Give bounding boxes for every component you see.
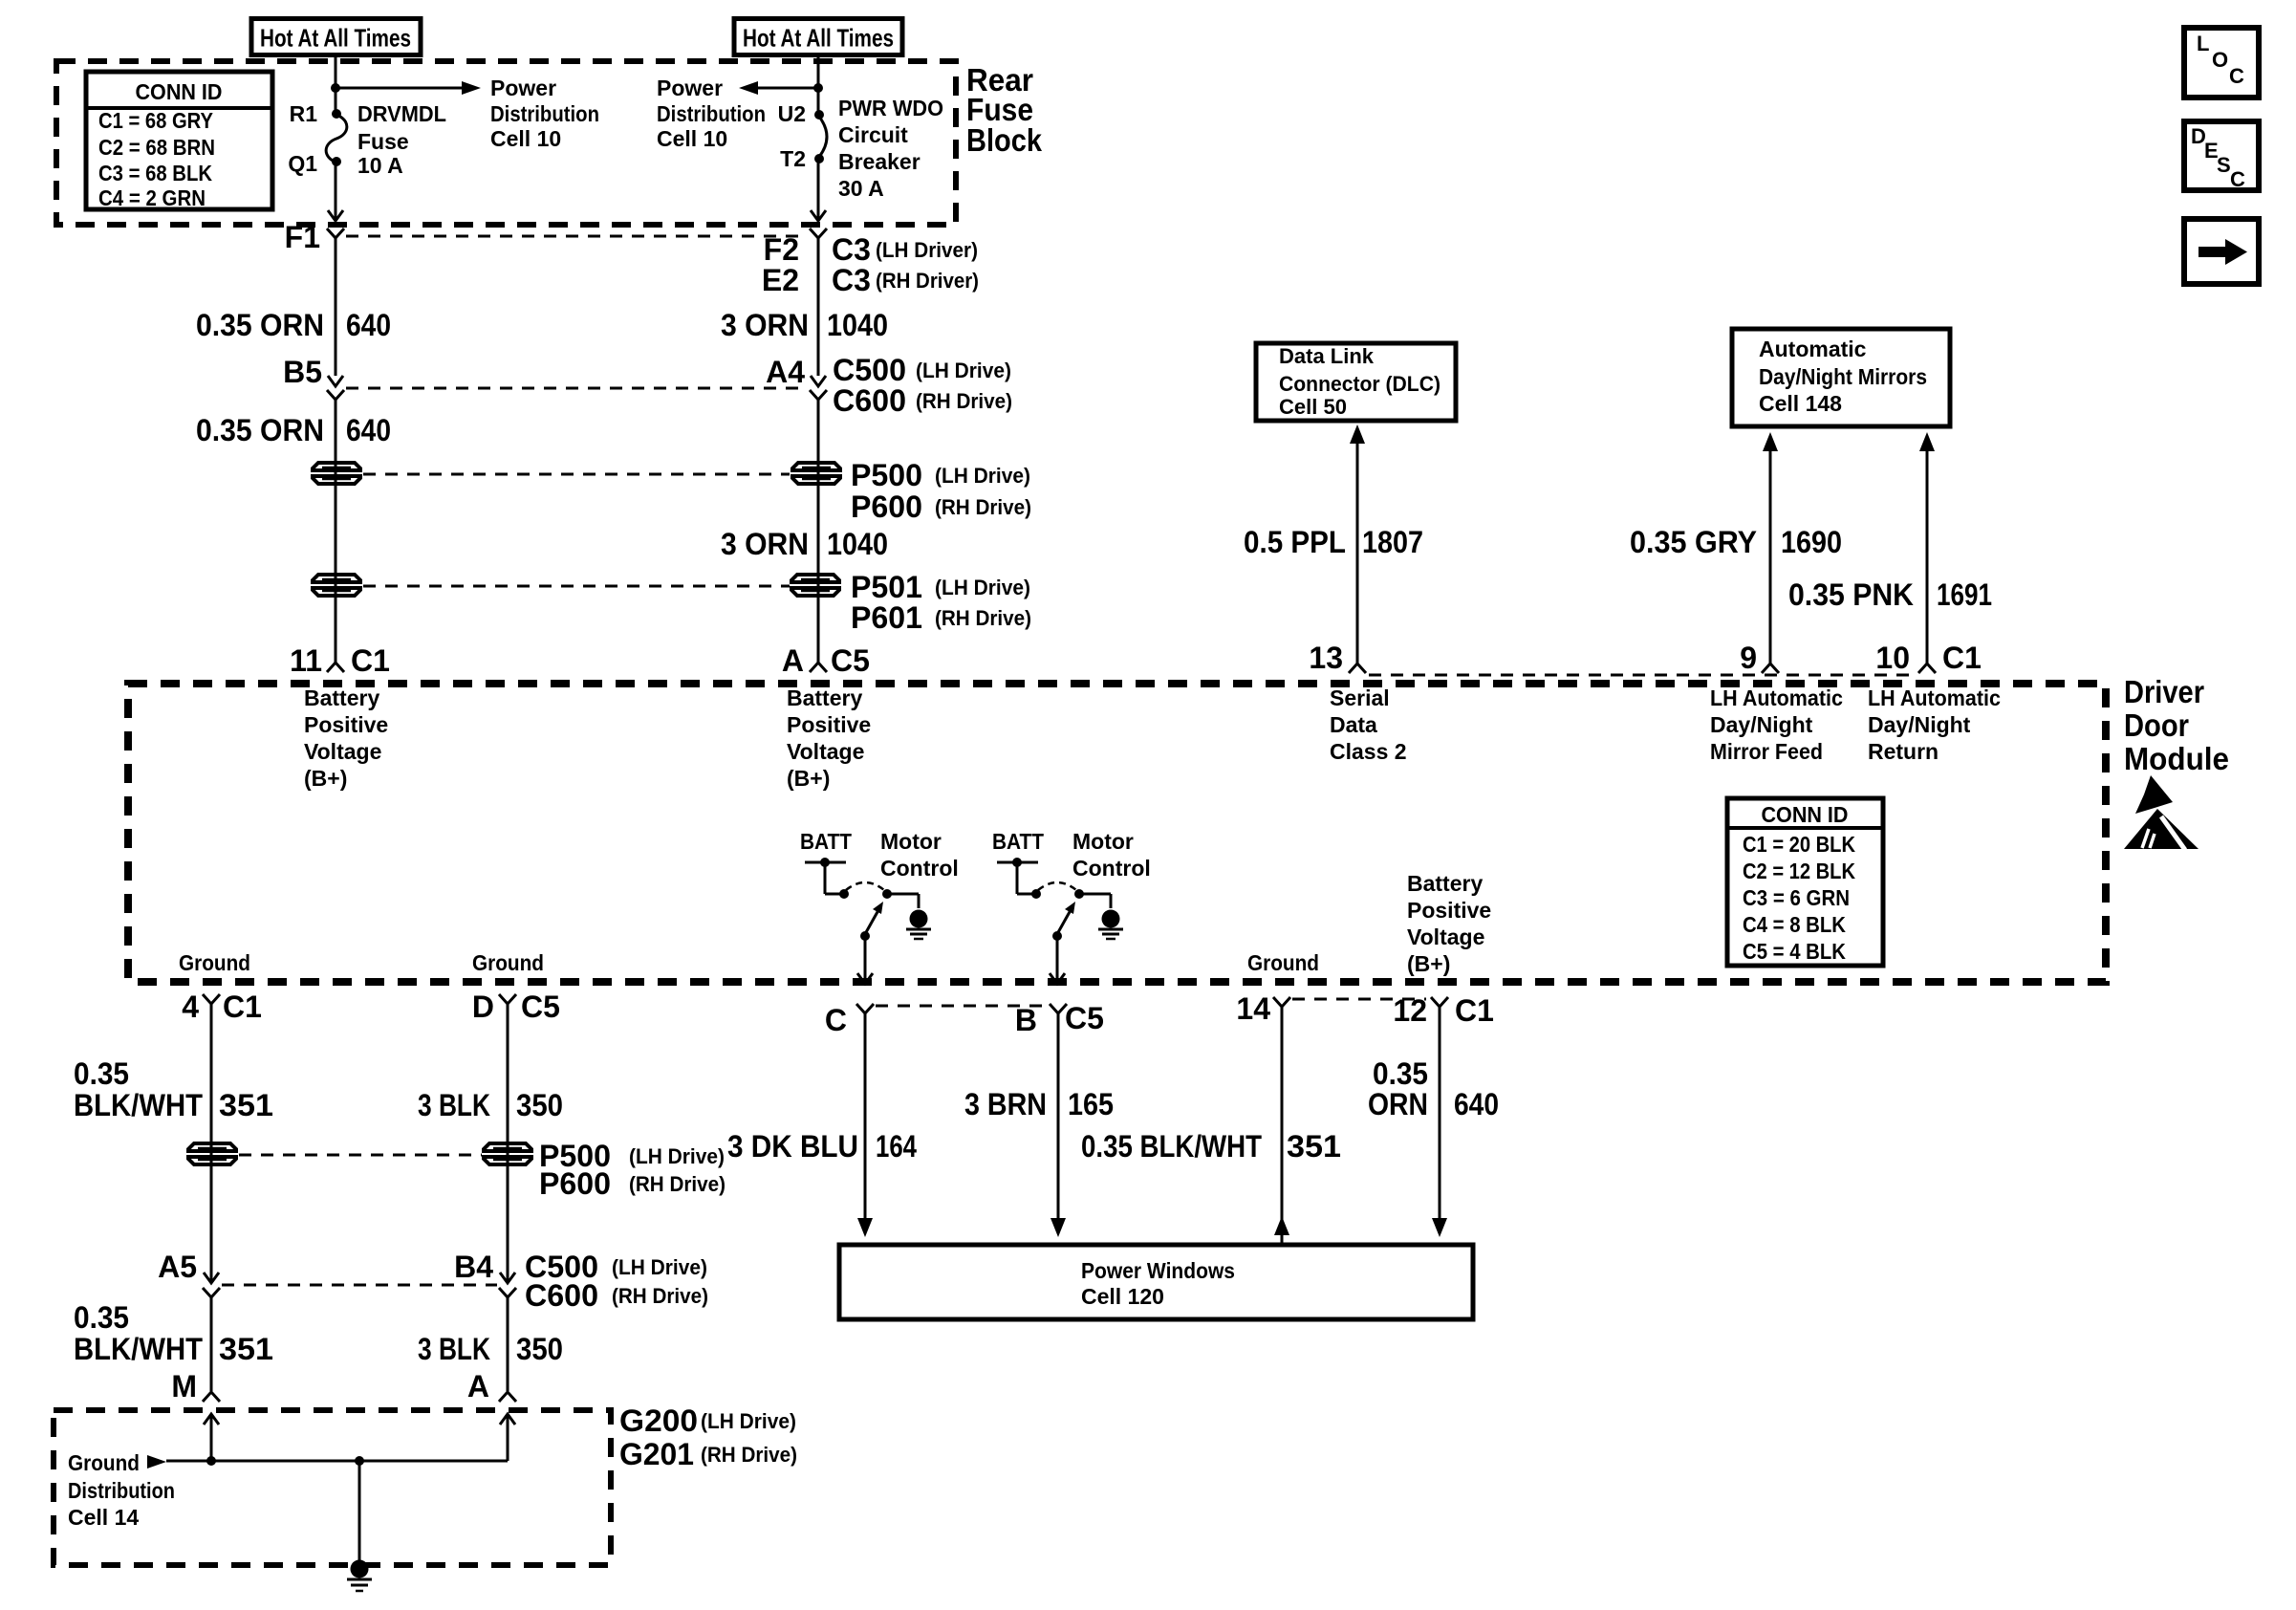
svg-text:BLK/WHT: BLK/WHT [74, 1332, 203, 1366]
in-line connector P500/P600 bottom dashed link [239, 1154, 482, 1157]
wire switch S1 to module pin [857, 936, 873, 984]
pin exit below C500 (left wire) [327, 390, 344, 400]
switch S1 BATT terminal [805, 858, 849, 899]
wire battery feed into fuse DRVMDL [335, 57, 337, 114]
svg-text:(LH Driver): (LH Driver) [876, 238, 978, 262]
svg-text:O: O [2212, 48, 2228, 72]
wire label 0.35 ORN 640 (upper left) [196, 308, 391, 342]
svg-text:C3: C3 [832, 263, 871, 297]
wire label 0.35 BLK/WHT 351 (upper) [74, 1056, 273, 1122]
svg-text:BLK/WHT: BLK/WHT [74, 1088, 203, 1122]
wire label 3 ORN 1040 (upper right) [721, 308, 888, 342]
svg-text:Distribution: Distribution [657, 101, 766, 126]
box Automatic Day/Night Mirrors Cell 148 [1732, 329, 1950, 426]
svg-text:Day/Night Mirrors: Day/Night Mirrors [1759, 364, 1927, 389]
svg-text:Day/Night: Day/Night [1868, 712, 1971, 737]
wire label 0.5 PPL 1807 [1244, 525, 1423, 559]
pin D C5 [472, 990, 560, 1024]
driver door module boundary (dashed) [128, 684, 2106, 982]
label Serial Data Class 2 (pin 13) [1330, 685, 1407, 764]
wire breaker output to F2 [811, 159, 826, 221]
svg-text:C2 = 68 BRN: C2 = 68 BRN [98, 135, 215, 160]
pin A into ground distribution [467, 1369, 516, 1403]
pin 13 [1309, 641, 1366, 675]
wire label 0.35 GRY 1690 [1630, 525, 1842, 559]
wire label 0.35 ORN 640 (left, second) [196, 413, 391, 447]
pin 4 C1 [182, 990, 262, 1024]
label box Hot At All Times (left) [251, 19, 421, 55]
svg-text:0.35: 0.35 [74, 1056, 129, 1091]
svg-text:F1: F1 [285, 220, 320, 254]
svg-text:BATT: BATT [992, 829, 1044, 854]
connector line C500/C600 bottom (dashed) [222, 1284, 497, 1287]
connector line C1 top (dashed) [1369, 674, 1916, 677]
svg-text:DRVMDL: DRVMDL [357, 101, 446, 126]
label LH Automatic Day/Night Return (pin 10) [1868, 685, 2001, 764]
pin 14 [1236, 991, 1290, 1026]
svg-text:(LH Drive): (LH Drive) [935, 576, 1030, 599]
svg-text:PWR WDO: PWR WDO [838, 96, 943, 120]
label PWR WDO Circuit Breaker 30 A [838, 96, 943, 201]
ESD sensitive device symbol [2124, 775, 2199, 850]
rear fuse block boundary (dashed) [56, 61, 956, 225]
node junction right feed [813, 83, 823, 93]
wire to ground G200/G201 [358, 1461, 361, 1560]
svg-text:0.35 GRY: 0.35 GRY [1630, 525, 1757, 559]
pin B C5 [1015, 1001, 1104, 1037]
wire 0.35 ORN 640 from pin 12 [1432, 1007, 1447, 1237]
svg-text:C: C [2229, 64, 2244, 88]
svg-text:(RH Drive): (RH Drive) [916, 389, 1012, 413]
svg-text:(RH Drive): (RH Drive) [701, 1443, 797, 1467]
svg-text:A5: A5 [158, 1250, 197, 1284]
label C600 (RH Drive) [833, 383, 1012, 418]
svg-text:LH Automatic: LH Automatic [1868, 685, 2001, 710]
svg-text:Module: Module [2124, 741, 2229, 776]
svg-text:351: 351 [219, 1332, 273, 1366]
wire 3 ORN 1040 segment (right) [817, 400, 820, 663]
svg-text:1040: 1040 [827, 527, 888, 561]
label P500 (LH Drive) [851, 458, 1030, 492]
label C600 (RH Drive) bottom [525, 1278, 708, 1313]
pin B5 into C500/C600 [283, 355, 343, 389]
svg-text:(B+): (B+) [304, 766, 347, 791]
svg-text:(RH Drive): (RH Drive) [629, 1172, 726, 1196]
wire label 3 BLK 350 (upper) [418, 1088, 563, 1122]
label C3 (RH Driver) [832, 263, 979, 297]
svg-text:U2: U2 [778, 101, 806, 126]
svg-text:ORN: ORN [1368, 1087, 1428, 1121]
switch S2 motor-control contact [1074, 889, 1111, 908]
svg-text:Voltage: Voltage [787, 739, 864, 764]
switch S2 throw arc (dashed) [1038, 882, 1076, 890]
svg-text:LH Automatic: LH Automatic [1710, 685, 1843, 710]
wire label 3 DK BLU 164 [727, 1129, 917, 1164]
svg-text:165: 165 [1068, 1087, 1114, 1121]
svg-text:C600: C600 [525, 1278, 598, 1313]
svg-text:C3: C3 [832, 232, 871, 267]
svg-text:T2: T2 [780, 146, 806, 171]
svg-text:Power Windows: Power Windows [1081, 1258, 1235, 1283]
connector line C3 (dashed) [346, 235, 808, 238]
wire label 0.35 BLK/WHT 351 (lower) [74, 1300, 273, 1366]
pin F2 / E2 of connector C3 [762, 228, 827, 376]
svg-text:(LH Drive): (LH Drive) [701, 1409, 796, 1433]
switch S2 BATT terminal [997, 858, 1041, 899]
wire 0.35 BLK/WHT 351 from pin 14 [1274, 1007, 1289, 1245]
svg-text:Battery: Battery [304, 685, 379, 710]
svg-text:Hot At All Times: Hot At All Times [743, 24, 894, 53]
svg-text:Automatic: Automatic [1759, 337, 1867, 361]
svg-text:C: C [825, 1003, 847, 1037]
svg-text:F2: F2 [764, 232, 799, 267]
motor M2 to ground [1102, 910, 1120, 928]
label G201 (RH Drive) [619, 1437, 797, 1471]
pin exit below C500 (right wire) [810, 390, 827, 400]
svg-text:G200: G200 [619, 1403, 698, 1438]
svg-text:C1 = 20 BLK: C1 = 20 BLK [1743, 832, 1855, 857]
svg-text:Return: Return [1868, 739, 1939, 764]
svg-text:C500: C500 [833, 353, 906, 387]
svg-text:(RH Drive): (RH Drive) [935, 495, 1031, 519]
svg-text:Distribution: Distribution [68, 1478, 175, 1503]
svg-text:CONN ID: CONN ID [136, 79, 223, 104]
box Power Windows Cell 120 [839, 1245, 1473, 1319]
pin 11 C1 into driver door module [290, 643, 390, 678]
svg-text:CONN ID: CONN ID [1762, 802, 1849, 827]
pin A C5 into driver door module [782, 643, 870, 678]
wire 3 BLK 350 from pin D [507, 1004, 509, 1281]
svg-text:C4 = 8 BLK: C4 = 8 BLK [1743, 912, 1846, 937]
svg-text:3 BRN: 3 BRN [964, 1087, 1047, 1121]
svg-text:C1 = 68 GRY: C1 = 68 GRY [98, 108, 213, 133]
svg-text:30 A: 30 A [838, 176, 884, 201]
label box Hot At All Times (right) [734, 19, 902, 55]
svg-text:Data: Data [1330, 712, 1377, 737]
svg-text:C1: C1 [1455, 993, 1494, 1028]
svg-text:Cell 10: Cell 10 [657, 126, 727, 151]
svg-text:0.35 BLK/WHT: 0.35 BLK/WHT [1081, 1129, 1262, 1164]
label P600 (RH Drive) [851, 490, 1031, 524]
label Driver Door Module [2124, 674, 2229, 776]
svg-text:C600: C600 [833, 383, 906, 418]
pin F1 of connector C3 [285, 220, 344, 376]
svg-text:Power: Power [657, 76, 723, 100]
svg-text:R1: R1 [290, 101, 318, 126]
svg-text:B4: B4 [454, 1250, 493, 1284]
in-line connector P500/P600 right half [792, 463, 840, 470]
label P600 (RH Drive) bottom [539, 1166, 726, 1201]
label P501 (LH Drive) [851, 570, 1030, 604]
label Ground Distribution Cell 14 [68, 1450, 175, 1530]
svg-text:Mirror Feed: Mirror Feed [1710, 739, 1823, 764]
svg-text:Motor: Motor [880, 829, 942, 854]
label LH Automatic Day/Night Mirror Feed (pin 9) [1710, 685, 1843, 764]
ground distribution boundary (dashed) [54, 1410, 611, 1565]
svg-text:P600: P600 [539, 1166, 611, 1201]
wire label 3 BLK 350 (lower) [418, 1332, 563, 1366]
wire up to pin A [500, 1414, 515, 1461]
wire 0.35 BLK/WHT 351 from pin 4 [210, 1004, 213, 1281]
label C500 (LH Drive) bottom [525, 1250, 707, 1284]
svg-text:D: D [472, 990, 494, 1024]
label Motor Control (switch 1) [880, 829, 959, 881]
label C3 (LH Driver) [832, 232, 978, 267]
label DRVMDL Fuse 10 A [357, 101, 446, 178]
svg-text:0.35 ORN: 0.35 ORN [196, 413, 324, 447]
node junction left feed [331, 83, 340, 93]
svg-text:164: 164 [876, 1129, 917, 1164]
svg-text:Cell 14: Cell 14 [68, 1505, 139, 1530]
svg-text:C3 = 68 BLK: C3 = 68 BLK [98, 161, 212, 185]
svg-text:E2: E2 [762, 263, 799, 297]
wire 3 DK BLU 164 from pin C [857, 1013, 873, 1237]
wire arrow to Power Distribution (left) [336, 81, 481, 95]
wire label 0.35 ORN 640 (pin 12) [1368, 1056, 1499, 1121]
label C500 (LH Drive) [833, 353, 1011, 387]
connector line C5 bottom (dashed) [876, 1005, 1048, 1008]
label Power Distribution Cell 10 (left) [490, 76, 599, 151]
svg-text:Day/Night: Day/Night [1710, 712, 1813, 737]
svg-text:Fuse: Fuse [357, 129, 409, 154]
svg-text:14: 14 [1236, 991, 1270, 1026]
connector ID table for rear fuse block [86, 72, 272, 210]
wire switch S2 to module pin [1050, 936, 1065, 984]
svg-text:C5 = 4 BLK: C5 = 4 BLK [1743, 939, 1846, 964]
pin 12 C1 [1393, 993, 1494, 1028]
svg-text:1691: 1691 [1937, 577, 1992, 612]
svg-text:Voltage: Voltage [304, 739, 381, 764]
pin M into ground distribution [171, 1369, 220, 1403]
svg-text:C1: C1 [351, 643, 390, 678]
svg-text:0.35: 0.35 [1373, 1056, 1428, 1091]
svg-text:C: C [2230, 167, 2245, 191]
svg-text:1040: 1040 [827, 308, 888, 342]
wire label 0.35 PNK 1691 [1788, 577, 1992, 612]
connector line C1 bottom (dashed) [1292, 998, 1426, 1001]
svg-text:B5: B5 [283, 355, 322, 389]
pin 10 C1 [1875, 641, 1982, 675]
in-line connector P500/P600 left half [313, 463, 360, 470]
pin A5 into C500/C600 [158, 1250, 219, 1284]
svg-text:(RH Drive): (RH Drive) [935, 606, 1031, 630]
svg-text:350: 350 [516, 1088, 563, 1122]
svg-text:A: A [467, 1369, 489, 1403]
svg-text:(RH Drive): (RH Drive) [612, 1284, 708, 1308]
svg-text:Cell 120: Cell 120 [1081, 1284, 1164, 1309]
svg-text:Battery: Battery [787, 685, 862, 710]
svg-text:C5: C5 [521, 990, 560, 1024]
svg-text:Breaker: Breaker [838, 149, 921, 174]
svg-text:0.35 PNK: 0.35 PNK [1788, 577, 1914, 612]
svg-text:3 BLK: 3 BLK [418, 1088, 490, 1122]
svg-text:S: S [2217, 153, 2231, 177]
svg-text:(LH Drive): (LH Drive) [916, 359, 1011, 382]
svg-text:Connector (DLC): Connector (DLC) [1279, 372, 1440, 396]
switch S1 motor-control contact [882, 889, 919, 908]
svg-text:(B+): (B+) [1407, 951, 1450, 976]
wire label 0.35 BLK/WHT 351 (pin 14) [1081, 1129, 1341, 1164]
svg-text:351: 351 [1287, 1129, 1341, 1164]
wire serial data to DLC with arrow [1350, 424, 1365, 664]
svg-text:640: 640 [1454, 1087, 1499, 1121]
svg-text:Control: Control [1072, 856, 1151, 881]
svg-text:(LH Drive): (LH Drive) [629, 1144, 725, 1168]
svg-text:Class 2: Class 2 [1330, 739, 1407, 764]
svg-text:Circuit: Circuit [838, 122, 908, 147]
svg-text:Ground: Ground [472, 950, 544, 975]
svg-text:4: 4 [182, 990, 199, 1024]
svg-text:P501: P501 [851, 570, 922, 604]
svg-text:C2 = 12 BLK: C2 = 12 BLK [1743, 859, 1855, 883]
label Battery Positive Voltage B+ (pin 11) [304, 685, 388, 791]
legend box DESC [2184, 121, 2259, 191]
svg-text:1690: 1690 [1781, 525, 1842, 559]
label G200 (LH Drive) [619, 1403, 796, 1438]
label Rear Fuse Block [966, 62, 1043, 158]
circuit breaker PWR WDO 30 A [814, 110, 827, 163]
svg-text:Power: Power [490, 76, 556, 100]
wire 0.35 ORN 640 segment (left) [335, 400, 337, 663]
svg-text:Door: Door [2124, 707, 2189, 743]
svg-text:Positive: Positive [787, 712, 871, 737]
svg-text:Ground: Ground [1247, 950, 1319, 975]
svg-text:3 BLK: 3 BLK [418, 1332, 490, 1366]
svg-text:BATT: BATT [800, 829, 852, 854]
wire battery feed into circuit breaker [817, 57, 820, 115]
pin A4 into C500/C600 [766, 355, 826, 389]
svg-text:L: L [2197, 32, 2209, 55]
svg-text:M: M [171, 1369, 197, 1403]
svg-text:C3 = 6 GRN: C3 = 6 GRN [1743, 885, 1850, 910]
svg-text:C5: C5 [1065, 1001, 1104, 1035]
svg-text:1807: 1807 [1362, 525, 1423, 559]
wire 3 BRN 165 from pin B [1051, 1013, 1066, 1237]
svg-text:C1: C1 [223, 990, 262, 1024]
svg-text:11: 11 [290, 643, 322, 678]
in-line connector P501/P601 left half [313, 575, 360, 582]
svg-text:P601: P601 [851, 600, 922, 635]
svg-text:3 ORN: 3 ORN [721, 308, 809, 342]
svg-text:A: A [782, 643, 804, 678]
wire up to pin M [204, 1414, 219, 1466]
svg-text:0.35 ORN: 0.35 ORN [196, 308, 324, 342]
wire mirror feed with arrow [1763, 432, 1778, 664]
svg-text:Q1: Q1 [288, 151, 317, 176]
fuse DRVMDL 10 A [326, 109, 347, 166]
svg-text:(B+): (B+) [787, 766, 830, 791]
connector ID table for driver door module [1727, 798, 1883, 966]
label P601 (RH Drive) [851, 600, 1031, 635]
svg-text:A4: A4 [766, 355, 805, 389]
svg-text:Block: Block [966, 122, 1043, 158]
svg-text:Ground: Ground [179, 950, 250, 975]
svg-text:10 A: 10 A [357, 153, 403, 178]
in-line connector P500/P600 dashed link [363, 473, 790, 476]
svg-text:640: 640 [346, 308, 391, 342]
switch S1 movable arm [860, 902, 883, 941]
label Battery Positive Voltage B+ (pin 12) [1407, 871, 1491, 976]
svg-text:P600: P600 [851, 490, 922, 524]
in-line connector P501/P601 dashed link [363, 585, 790, 588]
svg-text:Ground: Ground [68, 1450, 140, 1475]
ground feed arrow [147, 1455, 166, 1469]
svg-text:Cell 50: Cell 50 [1279, 395, 1347, 419]
legend box next-page arrow [2184, 219, 2259, 284]
svg-text:(LH Drive): (LH Drive) [935, 464, 1030, 488]
node ground junction [355, 1456, 364, 1466]
wire fuse output to F1 [328, 162, 343, 221]
svg-text:Cell 10: Cell 10 [490, 126, 561, 151]
pin B4 into C500/C600 [454, 1250, 515, 1284]
svg-text:0.35: 0.35 [74, 1300, 129, 1335]
connector line C500/C600 (dashed) [346, 387, 808, 390]
wire arrow to Power Distribution (right) [739, 81, 818, 95]
svg-text:Data Link: Data Link [1279, 344, 1375, 368]
svg-text:Hot At All Times: Hot At All Times [260, 24, 411, 53]
in-line connector P501/P601 right half [791, 575, 839, 582]
label Battery Positive Voltage B+ (pin A) [787, 685, 871, 791]
wire label 3 ORN 1040 (mid right) [721, 527, 888, 561]
ground symbol G200/G201 [347, 1560, 372, 1592]
box Data Link Connector (DLC) Cell 50 [1256, 343, 1456, 421]
svg-text:640: 640 [346, 413, 391, 447]
pin C [825, 1003, 874, 1037]
svg-text:Cell 148: Cell 148 [1759, 391, 1842, 416]
svg-text:351: 351 [219, 1088, 273, 1122]
in-line connector P500/P600 bottom left half [188, 1143, 236, 1151]
svg-text:P500: P500 [851, 458, 922, 492]
svg-text:Driver: Driver [2124, 674, 2204, 709]
wire below C500 (right) [499, 1288, 516, 1391]
switch S2 movable arm [1052, 902, 1075, 941]
wire mirror return with arrow [1919, 432, 1935, 664]
svg-text:Voltage: Voltage [1407, 925, 1484, 949]
wire label 3 BRN 165 [964, 1087, 1114, 1121]
label P500 (LH Drive) bottom [539, 1139, 725, 1173]
svg-text:10: 10 [1875, 641, 1910, 675]
svg-text:C1: C1 [1942, 641, 1982, 675]
pin 9 [1740, 641, 1779, 675]
svg-text:9: 9 [1740, 641, 1757, 675]
svg-text:0.5 PPL: 0.5 PPL [1244, 525, 1346, 559]
motor M1 to ground [910, 910, 928, 928]
svg-text:Control: Control [880, 856, 959, 881]
label Motor Control (switch 2) [1072, 829, 1151, 881]
svg-text:Positive: Positive [1407, 898, 1491, 923]
in-line connector P500/P600 bottom right half [484, 1143, 531, 1151]
switch S1 throw arc (dashed) [846, 882, 884, 890]
svg-text:Serial: Serial [1330, 685, 1390, 710]
svg-text:3 DK BLU: 3 DK BLU [727, 1129, 858, 1164]
label Power Distribution Cell 10 (right) [657, 76, 766, 151]
ground bus wire [166, 1460, 508, 1463]
svg-text:G201: G201 [619, 1437, 694, 1471]
svg-text:12: 12 [1393, 993, 1427, 1028]
svg-text:Positive: Positive [304, 712, 388, 737]
svg-text:13: 13 [1309, 641, 1343, 675]
svg-text:C4 = 2 GRN: C4 = 2 GRN [98, 185, 206, 210]
svg-text:B: B [1015, 1003, 1037, 1037]
svg-text:C5: C5 [831, 643, 870, 678]
svg-text:(RH Driver): (RH Driver) [876, 269, 979, 293]
svg-text:Distribution: Distribution [490, 101, 599, 126]
svg-text:350: 350 [516, 1332, 563, 1366]
legend box LOC [2184, 28, 2259, 98]
svg-text:Motor: Motor [1072, 829, 1134, 854]
svg-text:3 ORN: 3 ORN [721, 527, 809, 561]
svg-text:(LH Drive): (LH Drive) [612, 1255, 707, 1279]
